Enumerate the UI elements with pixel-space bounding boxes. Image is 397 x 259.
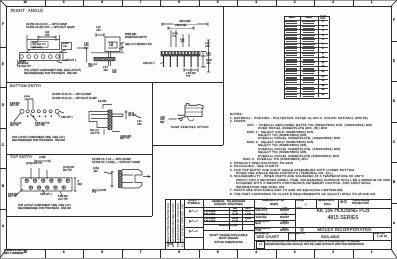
option hook detail — [188, 117, 194, 121]
molex company name — [300, 228, 304, 232]
TE side view pcb bar — [119, 171, 123, 188]
RA right dim — [61, 53, 67, 61]
inner vertical divider x=152 — [152, 82, 153, 216]
TE top view dim bracket — [35, 160, 50, 163]
BE leader lines — [14, 111, 64, 121]
title block top line — [165, 199, 392, 200]
RA front circuit1 leader — [160, 62, 164, 64]
RA side pcb surface line — [91, 52, 124, 54]
TE top view leaders — [31, 168, 47, 179]
TE holes row2 (crossed) — [29, 186, 32, 189]
RA housing top view body — [27, 40, 60, 50]
label RIGHT ANGLE — [11, 9, 43, 13]
title block grid — [295, 199, 296, 240]
zone border ticks and labels — [45, 0, 46, 6]
RA side pcb hatched — [94, 57, 115, 60]
BE side view housing — [89, 112, 108, 128]
BE top view dim leaders — [28, 99, 33, 109]
TE side view housing — [122, 170, 142, 189]
notes block — [230, 113, 243, 116]
RA front view leaders — [171, 30, 189, 47]
quality symbols block — [203, 199, 204, 249]
RA side dims — [96, 33, 124, 52]
RA leader lines — [17, 50, 62, 66]
drawing title — [295, 209, 392, 214]
label TOP ENTRY — [10, 156, 33, 160]
TE part number note — [92, 159, 131, 162]
RA holes row — [20, 55, 24, 59]
TE right dim — [74, 178, 77, 191]
TE side left dim — [104, 171, 114, 188]
TE holes row1 (crossed) — [25, 179, 28, 182]
TE leaders low — [15, 189, 62, 196]
bottom entry / top entry divider — [6, 154, 152, 155]
BE side dims — [103, 104, 141, 135]
RA pcb layout note — [24, 70, 81, 73]
revision block — [165, 199, 166, 249]
circuit size chart table — [284, 16, 331, 100]
top entry bottom — [6, 216, 152, 217]
BE side view pcb bar — [108, 110, 112, 130]
ramp removed option housing outline — [185, 104, 203, 117]
BE part number note — [52, 94, 91, 97]
option box bottom — [152, 145, 223, 146]
section divider: right angle / bottom entry — [6, 82, 223, 83]
option label — [171, 127, 209, 130]
label BOTTOM ENTRY — [10, 85, 42, 89]
material / document / sheet row — [255, 233, 269, 235]
RA side view housing — [105, 37, 120, 52]
RA side view pin — [109, 52, 111, 66]
BE top view holes row1 — [20, 109, 24, 113]
RA front view body with slots — [161, 52, 200, 57]
footer sheet id text — [4, 250, 28, 253]
RA ref boxed label — [62, 43, 72, 50]
RA part number note — [26, 24, 67, 27]
TE strip — [21, 178, 72, 191]
RA front right dims — [201, 40, 210, 72]
BE top view holes row2 dots — [27, 115, 29, 117]
general tolerances block — [254, 199, 255, 249]
RA hole strip — [20, 53, 61, 61]
option left detail and leaders — [169, 115, 186, 120]
TE pcb note — [18, 205, 71, 208]
section right edge — [223, 6, 224, 145]
BE side view pin — [112, 114, 123, 117]
proprietary statement — [256, 241, 265, 249]
BE pcb note — [12, 137, 65, 140]
TE arrow — [143, 176, 149, 178]
RA front view dim brackets — [162, 23, 208, 31]
RA front view pins — [163, 56, 165, 67]
RA front bottom dim — [184, 68, 198, 72]
RA dim A REF — [27, 35, 60, 41]
